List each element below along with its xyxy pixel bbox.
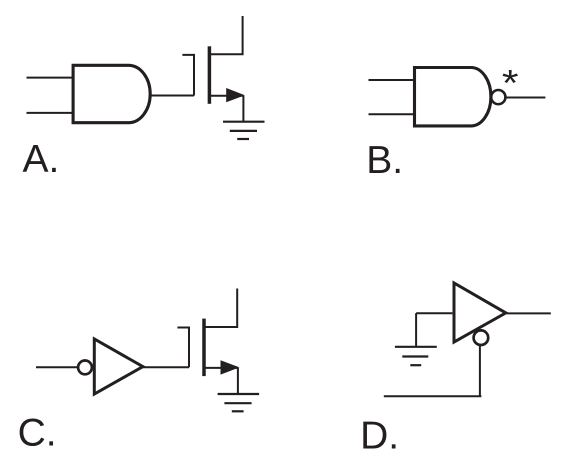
enable bubble of buffer (option D): [474, 330, 489, 345]
wire input 2 of AND gate (option A): [27, 112, 74, 114]
asterisk marker on output (option B): [502, 63, 519, 104]
wire source to ground (option C): [237, 368, 239, 394]
transistor Q2 gate bracket (option C): [177, 328, 189, 368]
AND gate (option A): [73, 65, 150, 122]
inverter triangle (option C): [94, 339, 143, 394]
svg-text:A.: A.: [23, 138, 60, 181]
NAND gate (option B): [415, 68, 491, 126]
arrow source of Q2 (option C): [221, 360, 240, 374]
svg-text:C.: C.: [18, 412, 57, 455]
ground symbol (option D): [395, 347, 437, 365]
wire input 1 of NAND gate (option B): [369, 79, 415, 81]
transistor Q2 channel bar (option C): [202, 319, 206, 377]
svg-text:*: *: [502, 63, 519, 104]
wire buffer output (option D): [507, 312, 551, 314]
wire enable down from bubble (option D): [479, 345, 481, 396]
arrow source of Q1 (option A): [226, 88, 245, 102]
transistor Q1 gate bracket (option A): [182, 55, 194, 96]
inversion bubble of NAND gate (option B): [491, 90, 505, 104]
wire source of Q2 (option C): [204, 367, 238, 369]
wire grounded input of buffer (option D): [416, 312, 452, 314]
wire input down to ground (option D): [415, 313, 417, 347]
inverter input bubble (option C): [78, 361, 92, 375]
svg-text:B.: B.: [366, 139, 403, 182]
wire input 2 of NAND gate (option B): [369, 113, 415, 115]
wire drain of Q2 (option C): [204, 289, 237, 328]
wire enable horizontal (option D): [384, 395, 482, 397]
wire input 1 of AND gate (option A): [27, 77, 74, 79]
ground symbol (option A): [223, 122, 265, 139]
transistor Q1 channel bar (option A): [208, 46, 212, 104]
wire drain of Q1 (option A): [209, 16, 242, 54]
buffer triangle (option D): [454, 283, 506, 342]
svg-text:D.: D.: [360, 414, 399, 457]
wire source of Q1 (option A): [209, 95, 243, 97]
ground symbol (option C): [218, 394, 260, 411]
wire AND output to transistor gate (option A): [150, 95, 194, 97]
wire source to ground (option A): [242, 96, 244, 122]
wire input of inverter (option C): [36, 366, 78, 368]
wire inverter output to transistor gate (option C): [143, 366, 189, 368]
wire NAND output (option B): [506, 97, 545, 99]
